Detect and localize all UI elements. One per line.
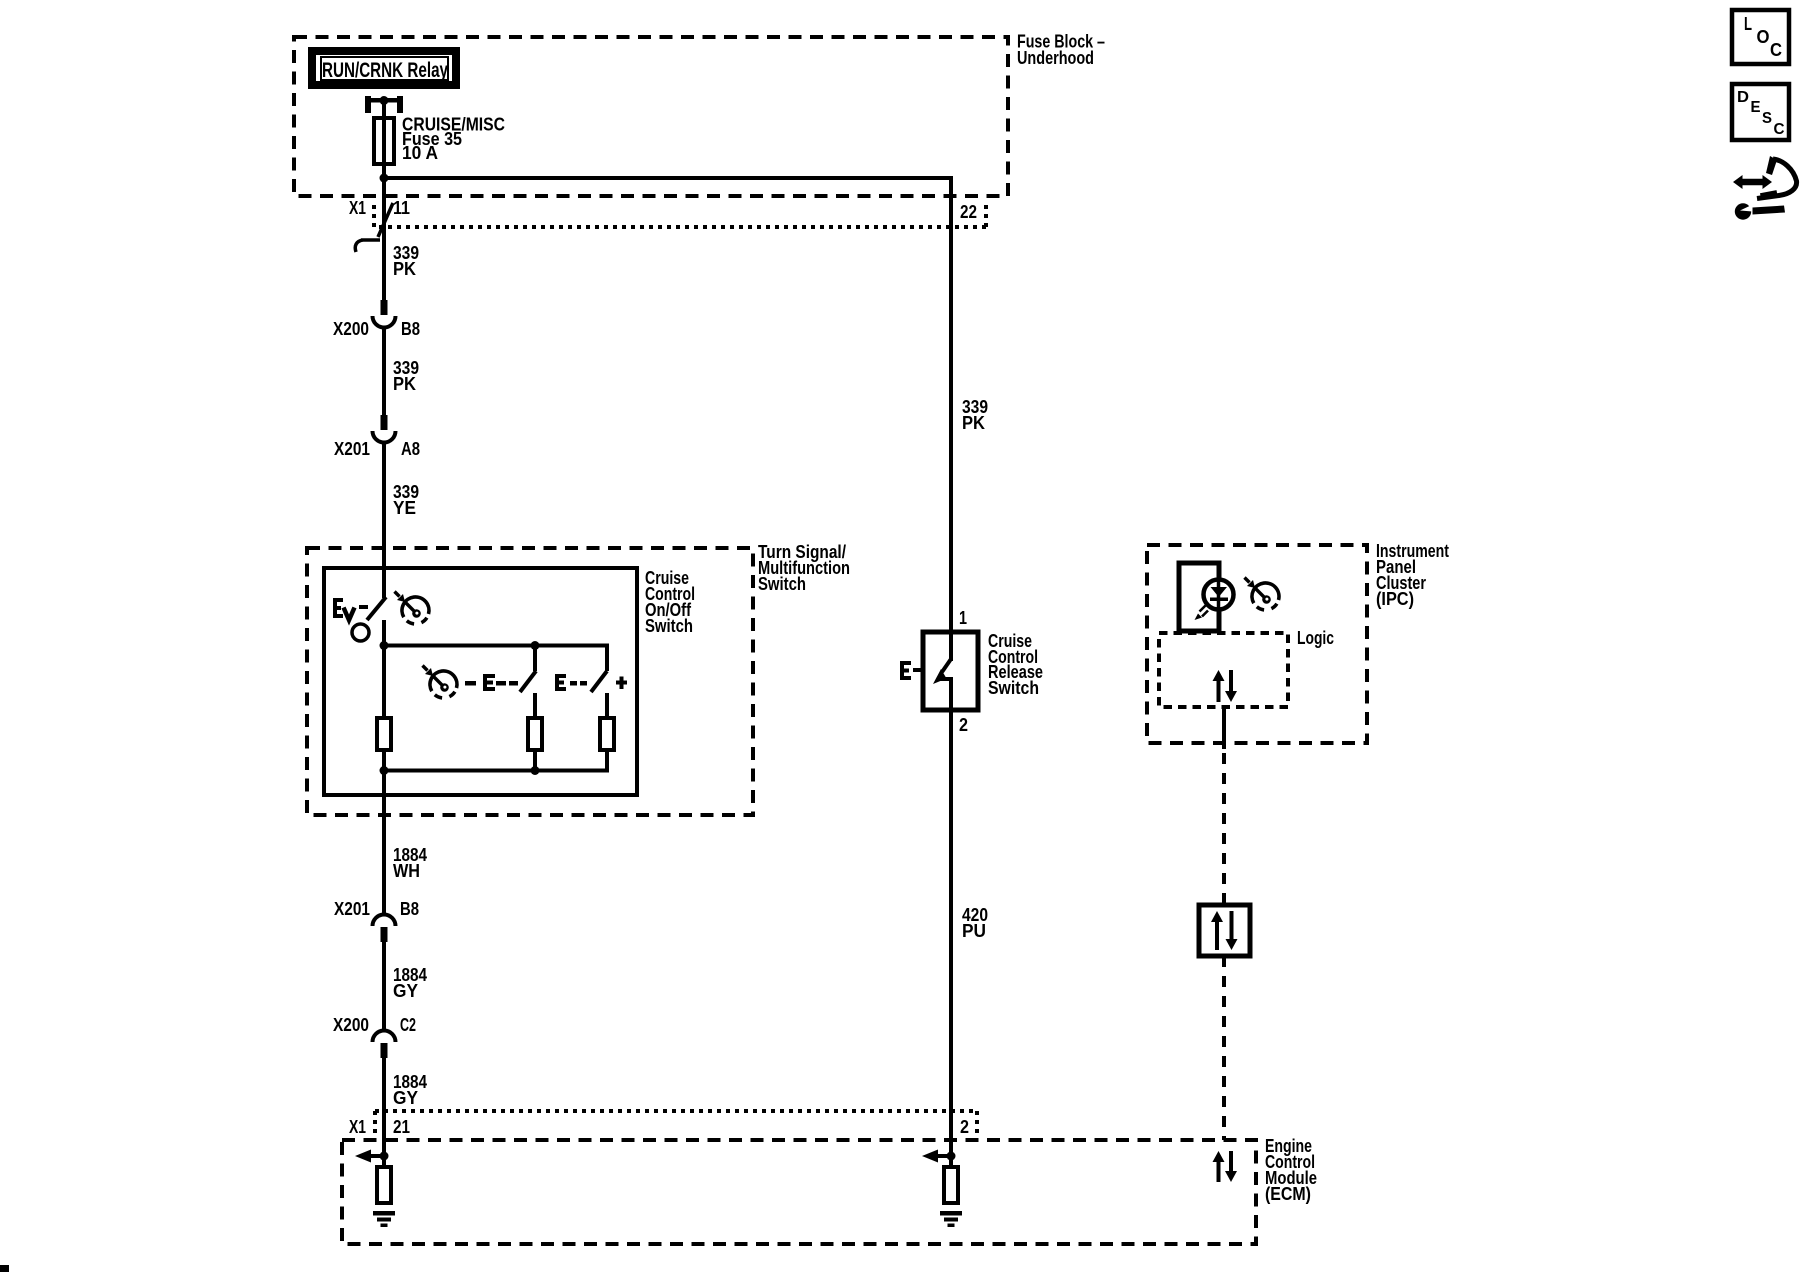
cruise gauge icon 2 (423, 666, 457, 698)
svg-text:10 A: 10 A (402, 143, 438, 163)
node: fuse output junction (380, 174, 389, 183)
svg-text:GY: GY (393, 981, 418, 1001)
wire below on/off blade (382, 620, 386, 718)
resume/accel switch blade (591, 671, 607, 692)
svg-text:22: 22 (960, 202, 977, 222)
resistor set/coast (528, 718, 542, 750)
release switch E label (900, 661, 911, 680)
wire 339 YE (382, 442, 386, 598)
IPC enclosure (1147, 545, 1367, 743)
svg-text:A8: A8 (401, 439, 420, 459)
ECM pulldown resistor (pin2) (944, 1167, 958, 1203)
wire release switch to ECM pin2, 420 PU (949, 679, 953, 1167)
svg-text:E: E (1751, 99, 1761, 116)
resistor on/off branch (377, 718, 391, 750)
fuse block underhood enclosure (294, 37, 1008, 196)
inline connector X201 A8 (381, 415, 388, 430)
LOC icon box (1732, 10, 1789, 64)
wire 339 PK (2) (382, 327, 386, 415)
serial data box (1199, 905, 1250, 956)
svg-text:S: S (1762, 110, 1772, 127)
wire relay to fuse (382, 100, 386, 300)
cruise on/off switch label (645, 568, 695, 636)
cruise control release switch box (923, 632, 978, 710)
DESC icon box (1732, 84, 1789, 140)
ground (ECM left) (373, 1211, 395, 1216)
dashed serial data wire (lower) (1222, 956, 1226, 1140)
node: relay output (380, 96, 389, 105)
serial data box arrows (1211, 911, 1238, 950)
IPC label (1376, 541, 1449, 609)
svg-text:PK: PK (393, 259, 416, 279)
on/off switch E position label (333, 598, 343, 618)
svg-text:21: 21 (393, 1117, 410, 1137)
on/off switch blade (367, 597, 386, 620)
svg-text:1: 1 (959, 608, 967, 628)
turn signal / multifunction switch enclosure (307, 548, 753, 815)
set/coast E label with dashes (465, 681, 476, 686)
release switch label (988, 631, 1043, 698)
set/coast branch wire lower (533, 693, 537, 718)
top bus corner down (605, 644, 609, 671)
svg-text:B8: B8 (401, 319, 420, 339)
node top bus middle (531, 641, 540, 650)
ECM pin21 input arrow (370, 1154, 384, 1158)
resume/accel branch wire lower (605, 693, 609, 718)
svg-text:PK: PK (962, 413, 985, 433)
wire exits on/off box, 1884 WH (382, 750, 386, 915)
node top bus left (380, 641, 389, 650)
plus label (616, 681, 627, 685)
cruise gauge icon 1 (395, 592, 429, 624)
relay pin bracket (365, 96, 403, 113)
svg-text:(IPC): (IPC) (1376, 589, 1414, 609)
wire label 339 PK (1) (393, 243, 419, 279)
relay RUN/CRNK label box (312, 51, 456, 85)
page corner mark (0, 1265, 9, 1272)
svg-text:(ECM): (ECM) (1265, 1184, 1311, 1204)
ECM enclosure (342, 1140, 1256, 1244)
bottom bus (384, 769, 609, 773)
fuse block label (1017, 32, 1105, 69)
svg-text:Switch: Switch (988, 678, 1039, 698)
wire 1884 GY (1) (382, 941, 386, 1031)
node ECM pin2 (947, 1152, 956, 1161)
top bus (384, 644, 609, 648)
svg-text:C2: C2 (400, 1015, 416, 1035)
svg-text:PU: PU (962, 921, 986, 941)
svg-text:2: 2 (960, 1117, 969, 1137)
svg-text:Logic: Logic (1297, 628, 1334, 648)
svg-text:X1: X1 (349, 198, 366, 218)
ground (ECM middle) (940, 1211, 962, 1216)
svg-text:X201: X201 (334, 439, 370, 459)
inline connector X200 B8 (381, 300, 388, 315)
wire 1884 GY (2) (382, 1057, 386, 1167)
set/coast branch wire upper (533, 646, 537, 672)
svg-text:X1: X1 (349, 1117, 366, 1137)
connector hook at X1 pin 11 (355, 203, 393, 252)
X1 connector row top (dotted bracket) (374, 203, 986, 227)
svg-text:D: D (1737, 89, 1749, 106)
node bottom bus left (380, 766, 389, 775)
svg-text:2: 2 (959, 715, 968, 735)
svg-text:GY: GY (393, 1088, 418, 1108)
navigation icon: double arrow, outline, wrench (1733, 156, 1797, 220)
logic box (1159, 633, 1288, 707)
set/coast switch blade (520, 671, 536, 692)
svg-text:L: L (1744, 14, 1752, 34)
svg-text:X200: X200 (333, 319, 369, 339)
svg-text:O: O (1757, 27, 1770, 47)
bottom connector row (dotted bracket) (375, 1111, 977, 1133)
indicator LED circle (1204, 580, 1234, 610)
wire label 339 PK (middle) (962, 397, 988, 433)
on/off E down-arrow (344, 608, 355, 621)
resistor resume/accel (600, 718, 614, 750)
svg-text:YE: YE (393, 498, 416, 518)
inline connector X200 C2 (373, 1031, 396, 1043)
ECM pin2 input arrow (937, 1154, 951, 1158)
ECM pulldown resistor (pin21) (377, 1167, 391, 1203)
svg-text:Switch: Switch (758, 574, 806, 594)
turn signal label (758, 542, 850, 594)
on/off switch contact circle (352, 624, 369, 641)
release switch blade with arrow (942, 659, 951, 672)
wire horizontal feed to pin 22 (384, 176, 951, 180)
svg-text:X201: X201 (334, 899, 370, 919)
inline connector X201 B8 lower (373, 915, 396, 926)
logic serial data arrows (1213, 670, 1238, 702)
svg-text:X200: X200 (333, 1015, 369, 1035)
wire logic to IPC edge (1222, 707, 1226, 749)
svg-text:C: C (1774, 121, 1785, 138)
indicator housing (1179, 563, 1219, 631)
ECM serial data arrows (1213, 1151, 1238, 1182)
svg-text:B8: B8 (400, 899, 419, 919)
ECM label (1265, 1136, 1317, 1204)
cruise control on/off switch box (324, 568, 637, 795)
fuse value labels (402, 115, 505, 164)
svg-text:Switch: Switch (645, 616, 693, 636)
dashed serial data wire (upper) (1222, 753, 1226, 905)
svg-text:WH: WH (393, 861, 420, 881)
wire pin22 branch down to release switch (949, 176, 953, 661)
cruise gauge icon 3 (1245, 578, 1279, 610)
fuse F35 CRUISE/MISC 10A (374, 118, 394, 164)
node ECM pin21 (380, 1152, 389, 1161)
LED light arrow (1200, 606, 1209, 617)
svg-text:Underhood: Underhood (1017, 48, 1094, 68)
resume/accel E label with dashes (555, 674, 566, 691)
svg-text:11: 11 (393, 198, 410, 218)
svg-text:RUN/CRNK Relay: RUN/CRNK Relay (322, 59, 448, 82)
node bottom bus middle (531, 766, 540, 775)
svg-text:C: C (1770, 40, 1782, 60)
LED diode symbol (1211, 587, 1228, 597)
release switch contact (937, 677, 953, 681)
svg-text:PK: PK (393, 374, 416, 394)
